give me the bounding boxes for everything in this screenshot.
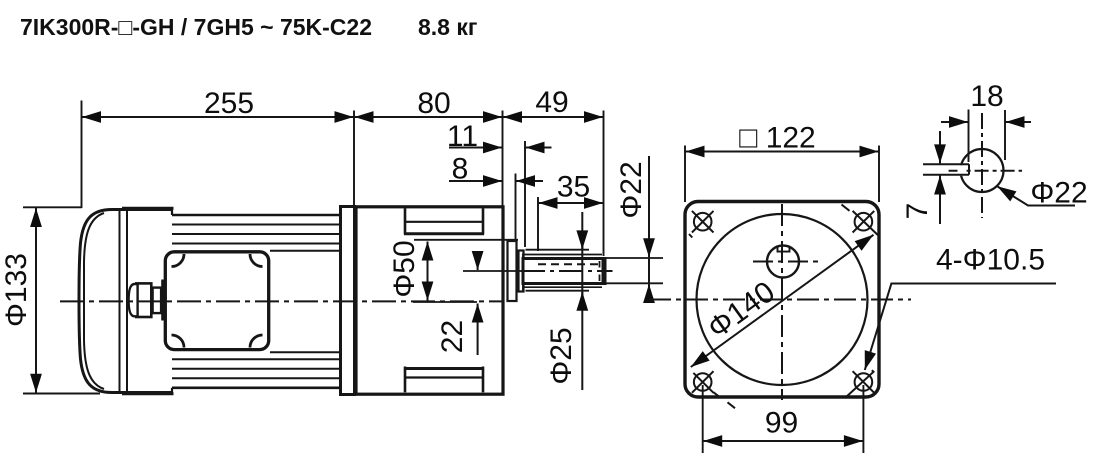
detail keyway rim erase: [958, 165, 964, 176]
motor fin block top envelope: [172, 214, 340, 217]
svg-text:8: 8: [452, 153, 469, 186]
dim 122 extension left: [684, 146, 686, 203]
svg-text:Φ22: Φ22: [615, 161, 648, 218]
motor rear cap inner line: [84, 213, 104, 389]
dim text 99: [765, 407, 798, 440]
motor mid band bottom edge: [270, 351, 340, 353]
motor fin block bottom envelope: [172, 386, 340, 389]
dim line 255: [82, 116, 354, 118]
dim Phi22 side upper tail: [648, 156, 650, 257]
shaft keyway end mark upper: [599, 261, 601, 268]
svg-text:11: 11: [447, 120, 478, 153]
cable gland nut body: [136, 283, 151, 317]
dim text 122: [739, 122, 816, 155]
dim 22 offset top extension (shaft axis into gearbox): [463, 270, 521, 272]
dim line Phi133: [35, 208, 37, 393]
detail keyway slot top line: [923, 163, 969, 165]
dim 18 extension right: [1004, 110, 1006, 160]
motor fin line b2: [172, 368, 340, 370]
shaft body Phi22: [523, 259, 605, 284]
svg-text:35: 35: [557, 171, 590, 204]
gearbox body: [356, 207, 503, 394]
motor fin line t1: [172, 224, 340, 226]
dim 18 right tail: [1006, 121, 1032, 123]
bolt hole TR centerline dash: [842, 205, 850, 211]
cable gland flange plate: [161, 280, 164, 321]
dim text Phi22 rotated: [615, 161, 648, 218]
dim line 80: [355, 116, 503, 118]
terminal box corner boss BL: [172, 335, 185, 348]
dim 49/35 shared extension line at shaft end: [603, 111, 605, 257]
shaft mid line bottom: [524, 286, 603, 288]
dim Phi25 lower arrow: [581, 292, 583, 310]
dim Phi22 side mid segment: [648, 258, 650, 283]
front view vertical center line: [781, 204, 783, 400]
dim Phi25 line crossing shaft: [581, 212, 583, 390]
svg-text:4-Φ10.5: 4-Φ10.5: [936, 244, 1045, 277]
motor front flange: [341, 207, 355, 395]
dim 8 left tail with arrow: [449, 180, 502, 182]
dim Phi133 extension bottom: [23, 393, 100, 395]
cable gland dome cap: [129, 284, 138, 316]
cable gland neck: [153, 288, 162, 314]
leader text Phi22 detail: [1030, 177, 1087, 210]
dim 255/80 shared extension line: [353, 111, 355, 206]
dim 11 left tail with arrow: [449, 147, 502, 149]
dim text Phi133 rotated: [0, 253, 33, 327]
svg-text:7: 7: [901, 203, 934, 220]
dim text Phi140 rotated: [702, 275, 781, 345]
svg-text:Φ25: Φ25: [545, 327, 578, 384]
gearbox top slot bottom line: [404, 232, 484, 235]
motor mid band top edge: [270, 250, 340, 252]
leader text 4-Phi10.5: [936, 244, 1045, 277]
shaft outer thin line bottom: [526, 290, 590, 292]
dim text 7 rotated: [901, 203, 934, 220]
svg-text:255: 255: [204, 87, 254, 120]
shaft end face thick line: [602, 258, 606, 284]
dim 99 extension left: [702, 385, 704, 453]
output shaft circle front: [767, 246, 799, 278]
output boss bottom extension line: [413, 301, 477, 303]
output shaft axis center line: [521, 270, 613, 272]
bolt hole TL: [692, 211, 714, 233]
svg-text:99: 99: [765, 407, 798, 440]
terminal box corner boss TR: [250, 254, 263, 267]
dim Phi25 upper arrow: [581, 231, 583, 249]
bolt hole BL: [692, 371, 714, 393]
gearbox bottom slot left wall: [404, 367, 407, 393]
svg-text:8.8 кг: 8.8 кг: [418, 14, 477, 40]
dim 18 extension left: [968, 110, 970, 163]
dim Phi22 side extension top: [605, 257, 663, 259]
bolt hole BR centerline dot: [872, 370, 874, 372]
gearbox top slot right wall: [482, 208, 485, 234]
gearbox top slot left wall: [404, 208, 407, 234]
bolt hole TR: [853, 211, 878, 235]
front view horizontal center line: [649, 299, 911, 301]
shaft outer thin line top: [526, 249, 590, 251]
dim line 49: [503, 116, 603, 118]
output boss Phi50: [508, 241, 517, 301]
motor rear cap: [79, 210, 172, 393]
dim 7 lower tail: [939, 176, 941, 225]
svg-text:Φ50: Φ50: [388, 240, 421, 297]
detail vertical center line: [981, 113, 983, 218]
dim 22 upper arrow tail: [477, 252, 479, 270]
svg-text:7IK300R-□-GH / 7GH5 ~ 75K-C22: 7IK300R-□-GH / 7GH5 ~ 75K-C22: [20, 14, 372, 40]
output boss top extension line: [414, 239, 518, 241]
dim Phi140 diagonal line: [691, 235, 874, 367]
detail keyway slot end line: [968, 164, 970, 175]
dim 18 left tail: [941, 121, 968, 123]
motor cap/ring junction line: [126, 210, 128, 393]
bolt hole TL centerline dash: [689, 234, 692, 238]
motor cap clamp ring line: [119, 211, 121, 392]
dim text 18: [970, 80, 1003, 113]
detail horizontal center line: [949, 170, 1022, 172]
motor ring bottom edge: [122, 392, 174, 395]
dim text Phi25 rotated: [545, 327, 578, 384]
bolt hole BR: [845, 371, 874, 398]
dim 122 extension right: [878, 146, 880, 203]
svg-text:□ 122: □ 122: [739, 122, 816, 155]
dim Phi133 extension top: [23, 206, 82, 208]
gearbox bottom slot top line: [404, 367, 484, 370]
svg-text:22: 22: [436, 320, 469, 353]
gearbox top slot inner line: [405, 221, 483, 223]
detail keyway slot bottom line: [923, 174, 969, 176]
shaft keyway end mark lower: [599, 275, 601, 282]
motor fin line t2: [172, 233, 340, 235]
dim line 99: [703, 440, 863, 442]
motor fin block left step bottom: [171, 388, 173, 394]
dim 11 right tail with arrow: [526, 147, 552, 149]
dim text 255: [204, 87, 254, 120]
dim Phi22 side extension bottom: [605, 282, 663, 284]
dim Phi50 line: [427, 242, 429, 301]
motor fin line b3: [172, 358, 340, 360]
bolt hole BL centerline dashes: [714, 392, 736, 408]
dim 255 extension line left: [81, 101, 83, 209]
dim text Phi50 rotated: [388, 240, 421, 297]
svg-text:Φ140: Φ140: [702, 275, 781, 345]
shaft mid line top: [524, 254, 603, 256]
dim 7 upper tail: [939, 131, 941, 163]
output shaft keyway notch front: [778, 247, 790, 252]
terminal box corner boss TL: [172, 254, 185, 267]
dim 11 extension line: [524, 141, 526, 247]
svg-text:80: 80: [417, 87, 450, 120]
dim 22 lower arrow tail: [477, 304, 479, 356]
dim 8 right tail with arrow: [516, 180, 543, 182]
dim text 8: [452, 153, 469, 186]
dim line 35: [539, 202, 604, 204]
dim text 35: [557, 171, 590, 204]
gearbox bottom slot right wall: [482, 367, 485, 393]
leader 4-Phi10.5: [865, 284, 1056, 371]
dim 99 extension right: [862, 385, 864, 453]
dim Phi22 side lower tail: [648, 284, 650, 303]
svg-text:18: 18: [970, 80, 1003, 113]
dim text 49: [535, 86, 568, 119]
motor axis center line: [60, 300, 503, 302]
dim text 11: [447, 120, 478, 153]
terminal box: [165, 252, 268, 350]
dim 35 extension line left: [537, 197, 539, 251]
leader Phi22 detail: [997, 186, 1075, 205]
svg-text:Φ22: Φ22: [1030, 177, 1087, 210]
dim 8 extension line: [515, 174, 517, 242]
dim 80/49 shared extension line at gear face: [502, 111, 504, 207]
svg-text:49: 49: [535, 86, 568, 119]
motor ring top edge: [122, 207, 174, 210]
svg-text:Φ133: Φ133: [0, 253, 33, 327]
shaft circle horizontal center line: [753, 261, 819, 263]
shaft collar Phi25: [519, 251, 524, 292]
detail shaft circle: [961, 149, 1004, 192]
shaft keyway hidden dashed line: [538, 263, 602, 265]
motor fin line t3: [172, 243, 340, 245]
dim text 80: [417, 87, 450, 120]
dim line 122: [686, 151, 879, 153]
motor fin line b1: [172, 377, 340, 379]
spigot circle Phi140: [697, 214, 868, 385]
shaft outer left connect line: [522, 254, 524, 291]
terminal box corner boss BR: [250, 335, 263, 348]
motor fin block left step top: [171, 208, 173, 215]
dim text 22 rotated: [436, 320, 469, 353]
gearbox face square: [685, 202, 879, 398]
gearbox bottom slot inner line: [405, 376, 483, 378]
